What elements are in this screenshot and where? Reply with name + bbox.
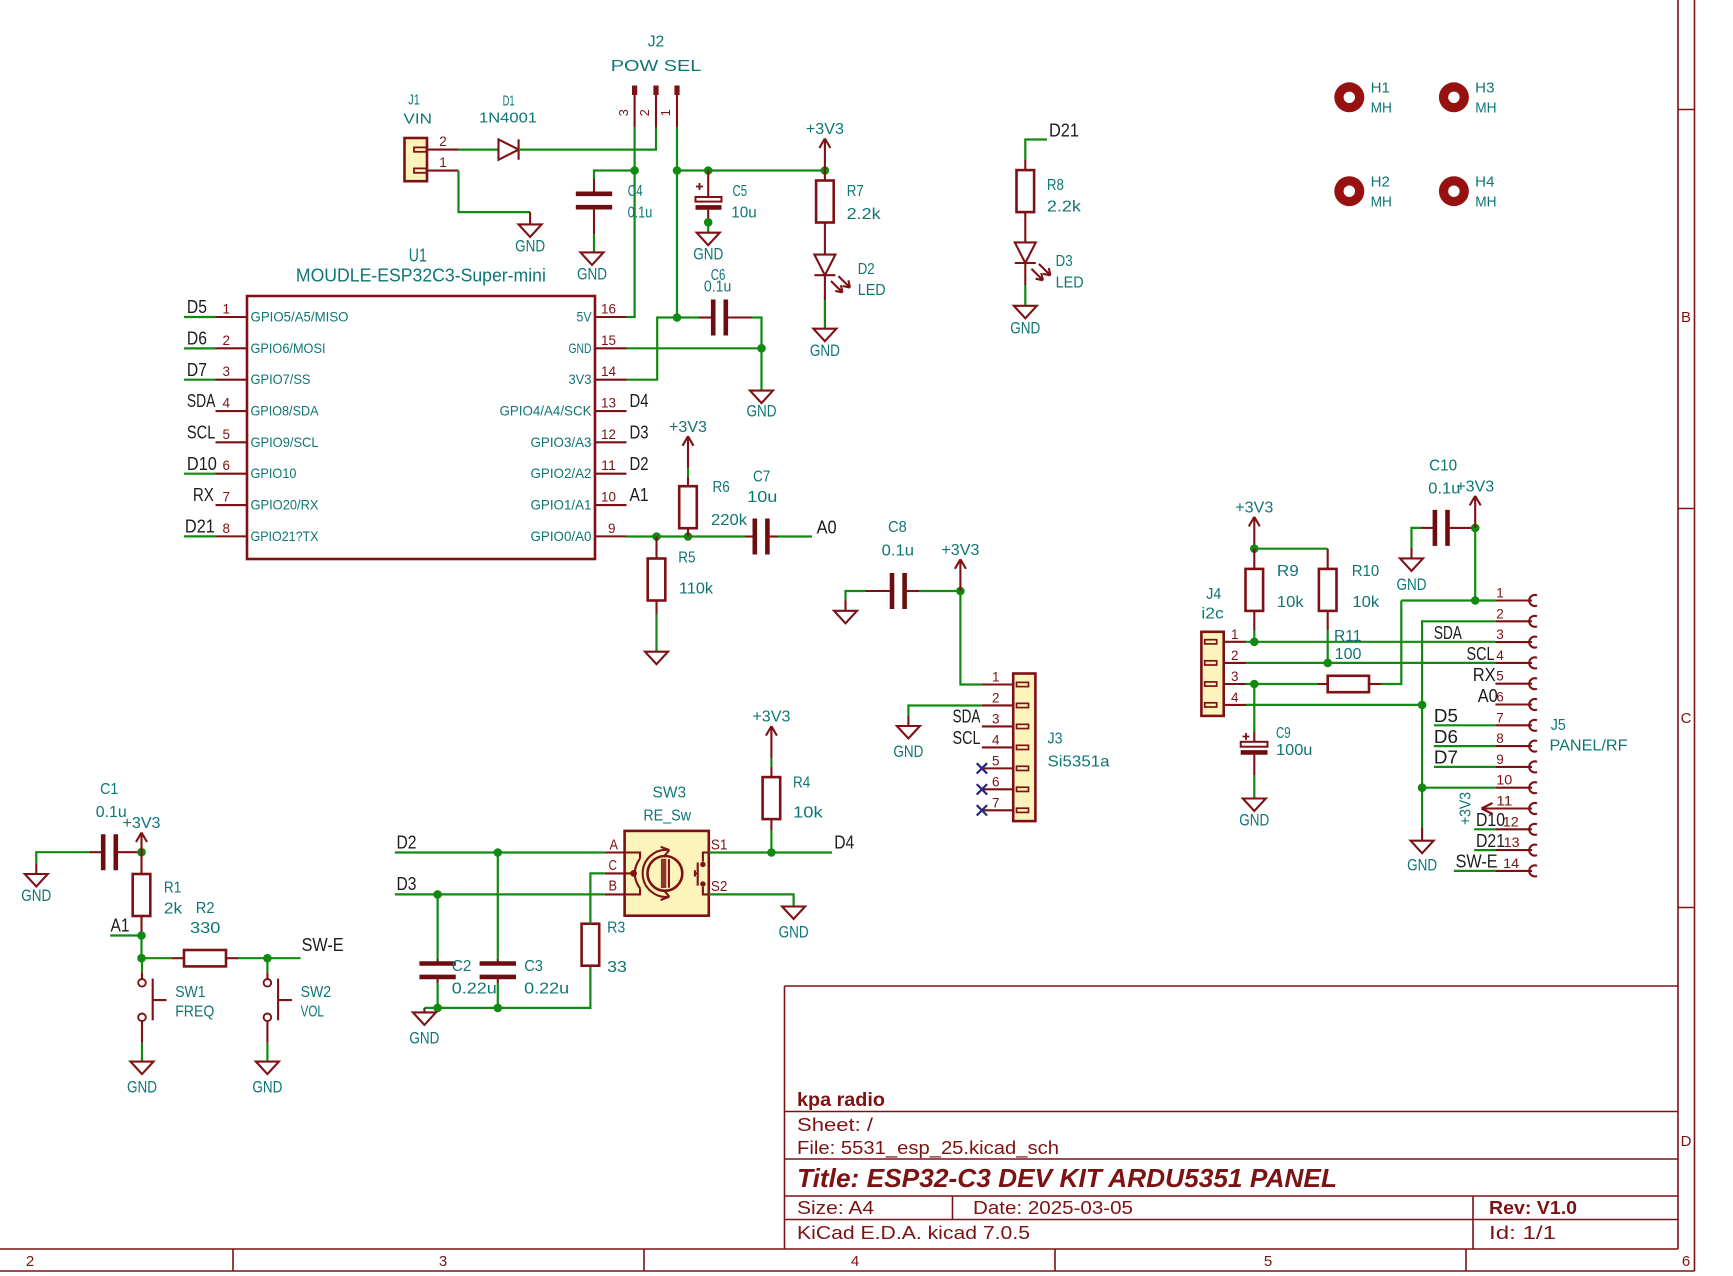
wire net D2 to SW3 pin A	[395, 851, 605, 853]
pin 3 of J2	[616, 86, 637, 128]
pin 3 of J5	[1495, 626, 1537, 647]
svg-text:R10: R10	[1352, 563, 1380, 580]
ground at J1 pin1	[515, 224, 545, 255]
ic U1 reference	[409, 246, 427, 266]
svg-text:D2: D2	[397, 833, 417, 853]
pin 12 of U1 (GPIO3/A3)	[531, 426, 627, 450]
svg-text:D3: D3	[630, 423, 649, 443]
svg-text:1N4001: 1N4001	[479, 109, 537, 126]
capacitor C1 reference	[100, 781, 118, 798]
wire net D6 to U1 pin 2	[184, 347, 216, 349]
resistor R10 bottom lead	[1327, 611, 1329, 663]
ground at C6	[747, 391, 777, 421]
svg-text:D4: D4	[630, 391, 649, 411]
switch SW3 value RE_Sw	[643, 808, 691, 825]
junction D3 / C2	[433, 890, 442, 899]
pin 7 of J3	[982, 794, 1013, 810]
svg-text:GPIO10: GPIO10	[251, 465, 297, 481]
pin 14 of J5	[1495, 855, 1537, 877]
svg-text:SW-E: SW-E	[1456, 852, 1498, 872]
pin 13 of J5	[1495, 834, 1537, 856]
pin 4 of J4	[1224, 689, 1246, 705]
pin C of SW3	[605, 857, 625, 874]
svg-text:10u: 10u	[731, 205, 757, 222]
svg-text:GND: GND	[810, 341, 840, 360]
wire U1 pin15 GND to C6 right	[627, 347, 762, 349]
svg-text:GPIO0/A0: GPIO0/A0	[531, 528, 592, 544]
resistor R2 reference	[196, 900, 215, 917]
net label D10	[187, 454, 217, 474]
pin 5 of J3	[982, 752, 1013, 768]
svg-text:10: 10	[1496, 772, 1512, 788]
capacitor C7 left lead	[745, 535, 755, 537]
capacitor C3 value 0.22u	[524, 980, 569, 997]
svg-text:10u: 10u	[747, 489, 777, 506]
resistor R3 value 33	[607, 959, 627, 976]
svg-text:R4: R4	[793, 775, 810, 792]
pin 2 of J5	[1495, 605, 1537, 626]
resistor R4 reference	[793, 775, 810, 792]
pin A of SW3	[605, 836, 625, 853]
svg-text:8: 8	[223, 520, 231, 536]
capacitor C8 value 0.1u	[882, 543, 914, 560]
svg-text:11: 11	[601, 457, 616, 473]
svg-text:2: 2	[439, 133, 447, 149]
svg-text:D2: D2	[858, 261, 875, 278]
svg-text:GND: GND	[779, 923, 809, 942]
mounting hole H4	[1439, 173, 1497, 210]
wire +3V3 to R10 top	[1254, 549, 1327, 569]
junction S1 / R4	[767, 848, 776, 857]
svg-text:0.1u: 0.1u	[882, 543, 914, 560]
svg-text:6: 6	[992, 773, 1000, 789]
wire J4 pin4 to GND vertical	[1246, 704, 1422, 706]
junction C5 gnd	[704, 218, 713, 227]
junction C3 gnd	[494, 1004, 503, 1013]
wire gnd tap	[423, 1008, 425, 1013]
diode D1 value 1N4001	[479, 109, 537, 126]
svg-text:R7: R7	[847, 183, 864, 200]
svg-text:D10: D10	[1476, 810, 1505, 830]
wire +3V3 to R4	[770, 758, 772, 777]
svg-text:A0: A0	[1478, 686, 1498, 706]
net label D5	[187, 297, 207, 317]
connector J4 body	[1201, 632, 1223, 716]
svg-text:12: 12	[601, 426, 616, 442]
wire net D6 to J5 pin 8	[1434, 745, 1496, 747]
pin B of SW3	[605, 877, 625, 894]
svg-text:GPIO4/A4/SCK: GPIO4/A4/SCK	[500, 403, 593, 419]
svg-text:GND: GND	[409, 1029, 439, 1048]
svg-text:C: C	[1681, 710, 1692, 727]
svg-text:2.2k: 2.2k	[1047, 199, 1082, 216]
net label D21	[185, 517, 215, 537]
pin 2 of J1	[427, 133, 459, 150]
wire R2 right lead	[227, 957, 268, 959]
svg-text:R5: R5	[678, 550, 695, 567]
capacitor C10 right lead	[1448, 527, 1476, 529]
svg-text:+3V3: +3V3	[806, 121, 844, 138]
svg-text:11: 11	[1496, 793, 1512, 809]
title block box	[785, 986, 1679, 1249]
svg-text:SDA: SDA	[953, 707, 981, 727]
junction SW1 / R2	[137, 954, 146, 963]
net label D4 at U1 right	[630, 391, 649, 411]
power +3V3 at C1	[123, 815, 161, 852]
resistor R9 bottom lead	[1253, 611, 1255, 642]
svg-text:D1: D1	[503, 93, 515, 110]
led D2	[814, 255, 850, 293]
junction +3V3 / C5	[704, 166, 713, 175]
junction GND net / C6	[757, 344, 766, 353]
power +3V3 at R7	[806, 121, 844, 171]
wire C1 left to ground	[36, 852, 89, 874]
svg-text:KiCad E.D.A. kicad 7.0.5: KiCad E.D.A. kicad 7.0.5	[797, 1223, 1030, 1243]
svg-text:FREQ: FREQ	[175, 1003, 214, 1020]
capacitor C2 value 0.22u	[452, 980, 497, 997]
svg-text:+3V3: +3V3	[941, 542, 979, 559]
capacitor C6 value 0.1u	[704, 279, 731, 296]
svg-text:D6: D6	[1434, 727, 1458, 747]
junction J4 pin1 / R9 / SDA	[1250, 638, 1259, 647]
pin 7 of J5	[1495, 709, 1537, 731]
capacitor C1 right lead	[116, 851, 142, 853]
switch SW2 VOL	[264, 958, 331, 1021]
svg-text:VIN: VIN	[403, 110, 432, 127]
svg-text:D4: D4	[834, 833, 854, 853]
capacitor C7 plates	[755, 519, 768, 555]
pin 9 of J5	[1495, 751, 1537, 773]
svg-text:+3V3: +3V3	[123, 815, 161, 832]
title block rev	[1489, 1198, 1577, 1218]
svg-text:13: 13	[601, 395, 616, 411]
pin 2 of J3	[982, 689, 1013, 705]
wire C8 left to ground	[846, 591, 866, 611]
ic U1 value MOUDLE-ESP32C3-Super-mini	[296, 266, 546, 286]
pin 12 of J5	[1495, 813, 1537, 835]
net label D10 at J5	[1476, 810, 1505, 830]
title block sheet	[797, 1115, 873, 1135]
switch SW3 rotary encoder body	[625, 831, 709, 916]
svg-text:D21: D21	[185, 517, 215, 537]
capacitor C6 left lead	[699, 316, 713, 318]
svg-text:C4: C4	[628, 183, 643, 200]
svg-text:15: 15	[601, 332, 616, 348]
wire C6 right to ground	[752, 318, 762, 391]
ground at C4	[577, 252, 607, 283]
capacitor C5 value 10u	[731, 205, 757, 222]
capacitor C7 reference	[753, 469, 770, 486]
capacitor C10 value 0.1u	[1428, 480, 1460, 497]
wire net D10 to J5 pin 12	[1474, 828, 1495, 830]
capacitor C5 reference	[733, 183, 748, 200]
ground at SW3 S2	[779, 907, 809, 942]
svg-text:File: 5531_esp_25.kicad_sch: File: 5531_esp_25.kicad_sch	[797, 1138, 1059, 1159]
power +3V3 at R9	[1235, 499, 1273, 548]
svg-text:R1: R1	[164, 879, 181, 896]
pin 4 of J5	[1495, 647, 1537, 668]
svg-text:2: 2	[637, 109, 652, 116]
svg-text:3: 3	[1496, 626, 1504, 642]
pin 2 of U1 (GPIO6/MOSI)	[216, 332, 326, 356]
svg-text:4: 4	[1496, 647, 1504, 663]
svg-text:GPIO7/SS: GPIO7/SS	[251, 371, 311, 387]
svg-text:3: 3	[1231, 668, 1239, 684]
net label SCL	[187, 423, 216, 443]
wire net D3 to SW3 pin B	[395, 893, 605, 895]
net label SW-E	[302, 935, 344, 955]
svg-text:GND: GND	[515, 237, 545, 256]
resistor R8 reference	[1047, 177, 1064, 194]
net label RX at J5	[1473, 665, 1496, 685]
svg-text:9: 9	[1496, 751, 1504, 767]
junction C10 / +3V3	[1471, 524, 1480, 533]
svg-text:GND: GND	[569, 340, 592, 356]
wire C2/C3 bottoms to gnd rail	[438, 977, 498, 1008]
resistor R11	[1328, 676, 1369, 692]
svg-text:GND: GND	[127, 1077, 157, 1096]
capacitor C4	[593, 179, 595, 194]
svg-text:GND: GND	[893, 742, 923, 761]
wire net SW-E to J5 pin 14	[1454, 870, 1496, 872]
svg-text:B: B	[1681, 309, 1691, 326]
svg-text:GND: GND	[252, 1077, 282, 1096]
svg-text:SW-E: SW-E	[302, 935, 344, 955]
svg-text:GND: GND	[1397, 575, 1427, 594]
title block title	[797, 1163, 1337, 1193]
net label D7	[187, 360, 207, 380]
capacitor C3 plates	[480, 964, 516, 977]
svg-text:MH: MH	[1371, 99, 1392, 116]
junction 5V / C4	[630, 166, 639, 175]
svg-text:D7: D7	[187, 360, 207, 380]
svg-text:2.2k: 2.2k	[847, 206, 882, 223]
title block tool	[797, 1223, 1030, 1243]
wire J3 pin2 to ground	[908, 705, 982, 726]
svg-text:R3: R3	[607, 920, 625, 937]
svg-text:2k: 2k	[164, 901, 183, 918]
junction C8 / +3V3	[956, 587, 965, 596]
wire C5 to ground	[707, 222, 709, 232]
capacitor C10 left lead	[1421, 527, 1435, 529]
wire J2 pin3 to U1 5V pin16	[627, 128, 635, 317]
svg-text:Title: ESP32-C3 DEV KIT ARDU53: Title: ESP32-C3 DEV KIT ARDU5351 PANEL	[797, 1163, 1337, 1193]
svg-text:D5: D5	[1434, 706, 1458, 726]
resistor R6 value 220k	[711, 512, 748, 529]
wire D3 cathode to ground	[1024, 263, 1026, 306]
svg-text:GPIO8/SDA: GPIO8/SDA	[251, 403, 320, 419]
wire C4 top to 5V line	[594, 171, 635, 180]
wire C9 bottom to ground	[1253, 755, 1255, 799]
wire U1 pin14 3V3 to C6 left	[627, 318, 700, 380]
svg-text:33: 33	[607, 959, 627, 976]
pin 6 of J3	[982, 773, 1013, 789]
resistor R9	[1246, 569, 1264, 611]
connector J3 body	[1013, 674, 1035, 822]
svg-text:SCL: SCL	[187, 423, 216, 443]
svg-text:PANEL/RF: PANEL/RF	[1550, 737, 1628, 754]
resistor R1	[133, 874, 151, 916]
resistor R7 value 2.2k	[847, 206, 882, 223]
svg-text:0.1u: 0.1u	[628, 205, 653, 222]
capacitor C4 bottom lead	[593, 207, 595, 252]
svg-text:5: 5	[992, 752, 1000, 768]
svg-text:R2: R2	[196, 900, 215, 917]
pin 2 of J2	[637, 86, 658, 128]
svg-text:3V3: 3V3	[569, 371, 592, 387]
svg-text:C7: C7	[753, 469, 770, 486]
svg-text:A0: A0	[817, 517, 837, 537]
svg-text:4: 4	[851, 1253, 859, 1270]
resistor R3 bottom lead	[589, 965, 591, 967]
led D3	[1015, 242, 1051, 280]
ground at D2	[810, 329, 840, 360]
wire D2 cathode to ground	[824, 275, 826, 329]
net label A0	[817, 517, 837, 537]
svg-text:9: 9	[608, 520, 616, 536]
svg-text:kpa radio: kpa radio	[797, 1090, 885, 1111]
pin 7 of U1 (GPIO20/RX)	[216, 489, 320, 513]
resistor R5 top lead	[655, 537, 657, 559]
capacitor C9 reference	[1276, 725, 1291, 742]
capacitor C1 value 0.1u	[96, 804, 127, 821]
junction C2 gnd	[433, 1004, 442, 1013]
net label D21 at J5	[1476, 831, 1505, 851]
svg-text:A1: A1	[111, 916, 130, 936]
pin 2 of J4	[1224, 647, 1246, 663]
svg-text:12: 12	[1503, 813, 1519, 829]
svg-text:GND: GND	[747, 402, 777, 421]
svg-text:10: 10	[601, 489, 616, 505]
svg-text:14: 14	[1503, 855, 1519, 871]
pin 1 of J2	[658, 86, 679, 128]
pin 9 of U1 (GPIO0/A0)	[531, 520, 627, 544]
net label SCL at J3	[953, 728, 981, 748]
net label D3 at U1 right	[630, 423, 649, 443]
svg-text:4: 4	[992, 731, 1000, 747]
wire net D10 to U1 pin 6	[184, 473, 216, 475]
resistor R5	[648, 559, 666, 601]
svg-text:GND: GND	[1407, 856, 1437, 875]
pin S2 of SW3	[711, 878, 728, 895]
wire SW3 S1 to net D4	[709, 851, 832, 853]
resistor R4	[763, 777, 781, 819]
wire GND rail to ground symbol	[1421, 788, 1423, 841]
svg-text:1: 1	[658, 109, 673, 116]
connector J2 reference	[648, 34, 665, 51]
svg-text:H1: H1	[1371, 79, 1390, 96]
junction A1	[137, 931, 146, 940]
svg-text:0.22u: 0.22u	[452, 980, 497, 997]
ground at J3 pin2	[893, 726, 923, 761]
svg-text:2: 2	[26, 1253, 34, 1270]
svg-text:J5: J5	[1551, 717, 1566, 734]
capacitor C8 reference	[888, 519, 907, 536]
pin 4 of U1 (GPIO8/SDA)	[216, 395, 320, 419]
wire R2 left lead	[142, 957, 185, 959]
resistor R5 value 110k	[679, 581, 714, 598]
ground at C5	[693, 233, 723, 264]
connector J4 value i2c	[1201, 605, 1223, 622]
resistor R2 value 330	[190, 920, 221, 937]
junction C1 / +3V3 / R1	[137, 848, 146, 857]
svg-text:R8: R8	[1047, 177, 1064, 194]
led D2 value LED	[858, 282, 886, 299]
svg-text:D10: D10	[187, 454, 217, 474]
pin 16 of U1 (5V)	[577, 301, 627, 325]
wire SW2 to ground	[266, 1021, 268, 1062]
mounting hole H2	[1334, 173, 1392, 210]
title block date	[973, 1198, 1133, 1218]
net label D21	[1049, 120, 1079, 140]
net label D2 at U1 right	[630, 454, 649, 474]
svg-text:U1: U1	[409, 246, 427, 266]
svg-text:1: 1	[1231, 626, 1239, 642]
svg-text:3: 3	[223, 363, 231, 379]
ground at C1	[21, 874, 51, 905]
svg-text:R6: R6	[713, 479, 730, 496]
wire net D5 to U1 pin 1	[184, 316, 216, 318]
svg-text:GPIO2/A2: GPIO2/A2	[531, 465, 592, 481]
title block company	[797, 1090, 885, 1111]
capacitor C1 left lead	[90, 851, 104, 853]
svg-text:5V: 5V	[577, 309, 593, 325]
capacitor C5 bottom lead	[707, 210, 709, 223]
svg-text:D3: D3	[397, 874, 417, 894]
net label A1	[111, 916, 130, 936]
svg-text:GPIO1/A1: GPIO1/A1	[531, 497, 592, 513]
wire +3V3 down to J3 pin1	[960, 591, 982, 685]
net label D7 at J5	[1434, 748, 1458, 768]
no-connect at J3 pin 5	[977, 763, 987, 773]
diode D1 reference	[503, 93, 515, 110]
svg-text:2: 2	[223, 332, 231, 348]
svg-text:7: 7	[1496, 709, 1504, 725]
svg-text:Size: A4: Size: A4	[797, 1198, 874, 1218]
svg-text:13: 13	[1504, 834, 1520, 850]
wire +3V3 rail J2 pin1 to R7	[677, 169, 825, 171]
resistor R7 top lead	[824, 171, 826, 181]
net label A1 at U1 right	[630, 485, 649, 505]
pin 10 of U1 (GPIO1/A1)	[531, 489, 627, 513]
svg-text:POW SEL: POW SEL	[611, 58, 702, 75]
wire net A1	[110, 934, 141, 936]
connector J3 reference	[1048, 731, 1063, 748]
ground at SW1	[127, 1062, 157, 1097]
junction GND rail / J5 pin10	[1418, 783, 1427, 792]
wire net SCL J4 pin2 to J5 pin4	[1246, 662, 1495, 664]
svg-text:i2c: i2c	[1201, 605, 1223, 622]
ground at R5	[645, 652, 668, 665]
capacitor C2 plates	[419, 964, 455, 977]
pin 5 of U1 (GPIO9/SCL)	[216, 426, 319, 450]
svg-text:B: B	[609, 877, 618, 894]
ground at C9	[1239, 799, 1269, 830]
led D3 value LED	[1056, 274, 1084, 291]
led D2 reference	[858, 261, 875, 278]
pin S1 of SW3	[711, 836, 728, 853]
ground at C10	[1397, 558, 1427, 594]
wire net D21 to R8	[1025, 140, 1047, 161]
svg-text:330: 330	[190, 920, 221, 937]
svg-text:5: 5	[1264, 1253, 1272, 1270]
diode D1	[499, 139, 519, 159]
svg-text:Rev: V1.0: Rev: V1.0	[1489, 1198, 1577, 1218]
resistor R1 reference	[164, 879, 181, 896]
pin 3 of J4	[1224, 668, 1246, 684]
power label +3V3 at J5 pin11	[1458, 792, 1496, 825]
svg-text:D5: D5	[187, 297, 207, 317]
